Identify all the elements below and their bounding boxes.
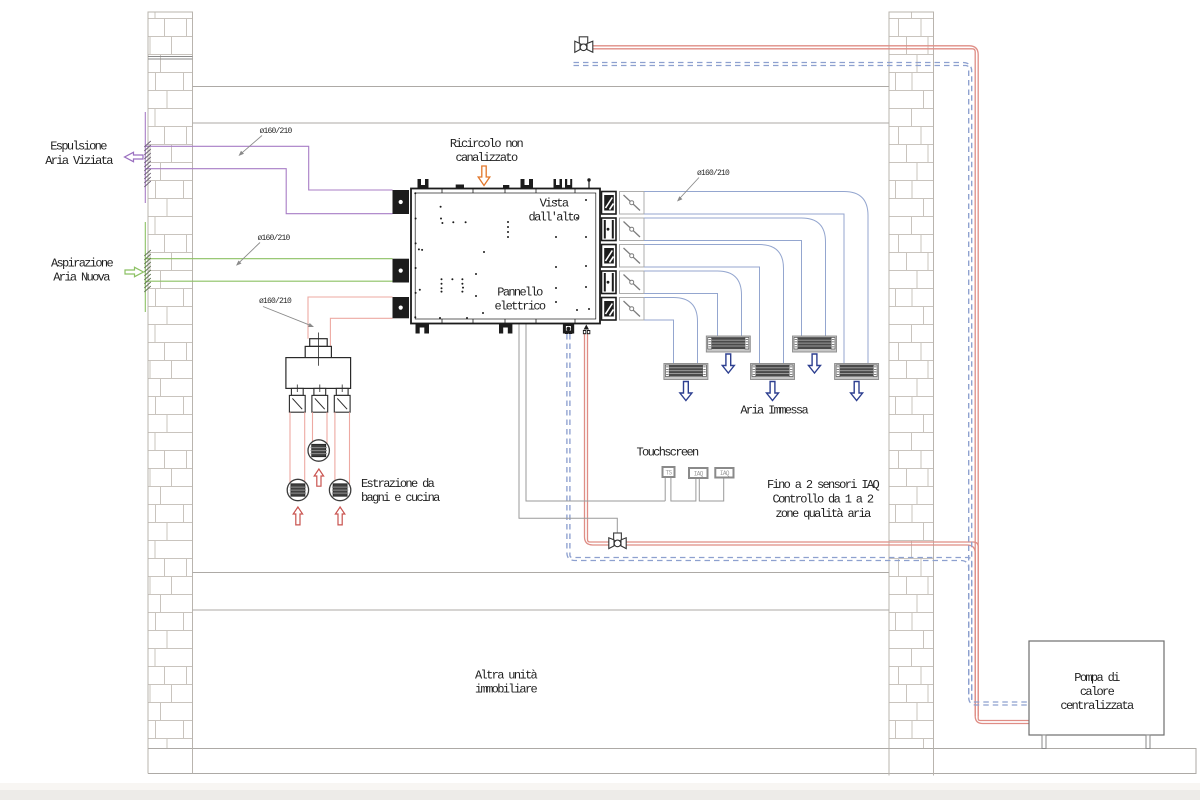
control wire: unit to touchscreen bus bbox=[526, 324, 665, 501]
supply duct 3 to diffuser 3 bbox=[644, 245, 784, 364]
right port 2 bbox=[602, 218, 617, 241]
supply diffuser 2 bbox=[706, 336, 750, 352]
duct size label 1 bbox=[239, 127, 293, 156]
top pin bbox=[587, 178, 590, 188]
svg-text:dall'alto: dall'alto bbox=[529, 211, 580, 225]
supply damper 2 bbox=[620, 218, 645, 241]
blue down arrow diffuser 3 bbox=[767, 382, 779, 401]
bottom bracket 3 bbox=[563, 324, 574, 335]
plenum stub 3 bbox=[336, 388, 348, 395]
mid floor line 1 bbox=[193, 572, 890, 574]
svg-text:Aspirazione: Aspirazione bbox=[51, 257, 114, 271]
top tab 1 bbox=[456, 185, 464, 189]
svg-text:Fino a 2 sensori IAQ: Fino a 2 sensori IAQ bbox=[767, 478, 879, 492]
extraction plenum box bbox=[286, 339, 351, 389]
svg-text:Ricircolo non: Ricircolo non bbox=[450, 137, 524, 151]
svg-text:TS: TS bbox=[665, 470, 672, 477]
supply damper 1 bbox=[620, 192, 645, 215]
damper 3 under plenum bbox=[334, 395, 350, 412]
unit bottom band seams bbox=[442, 319, 575, 324]
supply diffuser 3 bbox=[751, 364, 795, 380]
plenum stub 1 bbox=[291, 388, 303, 395]
supply diffuser 4 bbox=[793, 336, 837, 352]
ceiling line 2 bbox=[193, 122, 890, 124]
extract valve middle bbox=[308, 440, 329, 461]
svg-text:ø160/210: ø160/210 bbox=[258, 234, 291, 243]
svg-text:centralizzata: centralizzata bbox=[1060, 699, 1134, 713]
fresh air duct (green) from outside bbox=[145, 222, 392, 312]
svg-text:Pannello: Pannello bbox=[497, 286, 543, 300]
blue down arrow diffuser 2 bbox=[722, 354, 734, 373]
touchscreen TS bbox=[663, 467, 675, 477]
exhaust air arrow (left) bbox=[125, 152, 144, 161]
svg-text:bagni e cucina: bagni e cucina bbox=[361, 491, 440, 505]
extract valve left bbox=[287, 479, 308, 500]
left wall bbox=[148, 12, 193, 749]
unit top band seams bbox=[442, 189, 575, 194]
chilled line dashed pair: route from unit bottom bbox=[567, 334, 972, 700]
ceiling line 1 bbox=[193, 86, 890, 88]
svg-text:Aria Immessa: Aria Immessa bbox=[740, 404, 808, 418]
ventilation unit U1 (vista dall'alto) bbox=[411, 189, 600, 324]
control wire: unit to zone valve bbox=[519, 324, 617, 533]
duct size label 4 bbox=[677, 169, 730, 202]
left wall slab line bbox=[148, 57, 193, 60]
wall base extensions bbox=[148, 749, 934, 776]
svg-text:Aria Viziata: Aria Viziata bbox=[45, 154, 113, 168]
right port 5 (fan) bbox=[602, 298, 617, 321]
svg-text:canalizzato: canalizzato bbox=[455, 151, 518, 165]
left port 2 (fresh air) bbox=[393, 259, 410, 283]
svg-text:ø160/210: ø160/210 bbox=[697, 169, 730, 178]
hot water pipe pair: top route from valve to heat pump bbox=[590, 46, 1029, 724]
supply damper 5 bbox=[620, 298, 645, 321]
duct size label 2 bbox=[236, 234, 291, 266]
shut-off valve top bbox=[575, 37, 593, 53]
svg-text:IAQ: IAQ bbox=[720, 470, 730, 477]
svg-text:calore: calore bbox=[1080, 685, 1115, 699]
supply damper 4 bbox=[620, 271, 645, 294]
supply damper 3 bbox=[620, 245, 645, 268]
top bracket 2 bbox=[521, 179, 534, 189]
left port 1 (exhaust) bbox=[393, 190, 410, 214]
svg-text:Aria Nuova: Aria Nuova bbox=[53, 271, 110, 285]
svg-text:Espulsione: Espulsione bbox=[50, 140, 107, 154]
red up arrow right bbox=[335, 507, 344, 525]
wall hatch at exhaust crossing bbox=[144, 141, 151, 187]
right port 1 (fan) bbox=[602, 192, 617, 215]
svg-text:Altra unità: Altra unità bbox=[475, 669, 538, 683]
svg-text:Touchscreen: Touchscreen bbox=[637, 446, 700, 460]
right wall bbox=[889, 12, 934, 749]
right port 3 (fan) bbox=[602, 245, 617, 268]
supply duct 2 to diffuser 4 bbox=[644, 218, 826, 336]
right port 4 bbox=[602, 271, 617, 294]
orange recirculation arrow bbox=[478, 166, 490, 186]
chilled line dashed pair: top route bbox=[574, 63, 1030, 706]
svg-text:Vista: Vista bbox=[540, 197, 569, 211]
svg-text:IAQ: IAQ bbox=[694, 471, 704, 478]
svg-text:elettrico: elettrico bbox=[495, 300, 546, 314]
blue down arrow diffuser 4 bbox=[809, 354, 821, 373]
plenum stub 2 bbox=[314, 388, 326, 395]
svg-text:zone qualità aria: zone qualità aria bbox=[775, 507, 871, 521]
supply diffuser 1 bbox=[664, 364, 708, 380]
damper 2 under plenum bbox=[312, 395, 328, 412]
svg-text:Controllo da 1 a 2: Controllo da 1 a 2 bbox=[773, 493, 874, 507]
damper 1 under plenum bbox=[289, 395, 305, 412]
mid floor line 2 bbox=[193, 609, 890, 611]
extract valve right bbox=[329, 479, 350, 500]
fresh air arrow (right) bbox=[125, 267, 144, 276]
top tab 2 bbox=[503, 185, 509, 189]
supply duct 4 to diffuser 2 bbox=[644, 271, 742, 336]
svg-text:Pompa di: Pompa di bbox=[1074, 671, 1120, 685]
supply duct 1 to diffuser 5 bbox=[644, 192, 868, 364]
bottom slab bbox=[148, 749, 1196, 774]
svg-text:immobiliare: immobiliare bbox=[475, 683, 538, 697]
wall hatch at fresh-air crossing bbox=[144, 250, 151, 292]
bottom hydronic fitting bbox=[583, 325, 590, 335]
unit rivet dots bbox=[414, 192, 590, 319]
hot water pipe pair: route from unit bottom to heat pump bbox=[585, 334, 979, 716]
zone valve bottom bbox=[609, 533, 626, 549]
exhaust duct (purple) to outside bbox=[145, 112, 392, 214]
top bracket 4 bbox=[565, 179, 572, 189]
red up arrow middle bbox=[314, 469, 323, 486]
bottom bracket 1 bbox=[416, 324, 430, 334]
bottom page shadow strip bbox=[0, 790, 1200, 800]
blue down arrow diffuser 1 bbox=[680, 382, 692, 401]
top bracket 1 bbox=[418, 179, 429, 189]
svg-text:Estrazione da: Estrazione da bbox=[361, 477, 435, 491]
sensor IAQ 2 bbox=[715, 468, 733, 478]
stub centre ticks bbox=[297, 385, 342, 393]
heat pump box bbox=[1029, 641, 1164, 749]
extract drop pipes (pink) bbox=[290, 412, 350, 484]
sensor IAQ 1 bbox=[689, 468, 708, 478]
duct size label 3 bbox=[259, 297, 314, 327]
red up arrow left bbox=[293, 507, 302, 525]
left port 3 (extract) bbox=[393, 297, 410, 318]
bottom bracket 2 bbox=[499, 324, 512, 334]
sensor bus segment IAQ1-IAQ2 bbox=[699, 478, 723, 501]
blue down arrow diffuser 5 bbox=[851, 382, 863, 401]
top bracket 3 bbox=[554, 179, 563, 189]
extract duct (pink) unit to plenum bbox=[308, 297, 393, 346]
plenum centre line bbox=[318, 333, 320, 366]
supply duct 5 to diffuser 1 bbox=[644, 298, 698, 364]
svg-text:ø160/210: ø160/210 bbox=[259, 297, 292, 306]
sensor bus segment TS-IAQ1 bbox=[671, 477, 696, 501]
supply diffuser 5 bbox=[835, 364, 879, 380]
svg-text:ø160/210: ø160/210 bbox=[260, 127, 293, 136]
